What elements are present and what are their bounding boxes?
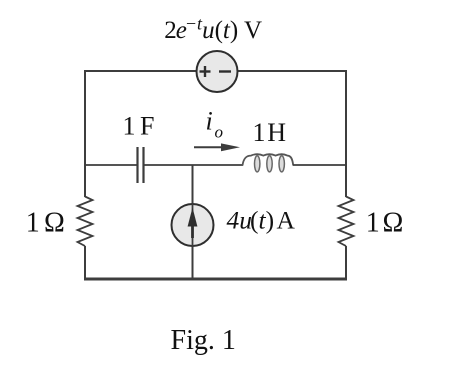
wire: right rail lower segment	[345, 246, 347, 280]
svg-text:1Ω: 1Ω	[26, 208, 65, 239]
svg-text:i: i	[206, 107, 213, 136]
wire: bottom rail	[84, 278, 347, 281]
svg-text:4u(t) A: 4u(t) A	[227, 205, 296, 234]
wire: middle rail left segment	[85, 164, 137, 166]
wire: center branch	[192, 165, 194, 280]
resistor R1 1 Ohm (left)	[78, 197, 93, 247]
svg-text:Fig. 1: Fig. 1	[171, 325, 236, 356]
current source I1	[172, 204, 214, 247]
inductor L1 1 H	[243, 154, 294, 172]
resistor R2 1 Ohm (right)	[339, 197, 354, 247]
svg-text:o: o	[215, 123, 224, 142]
wire: middle rail right segment	[293, 164, 346, 166]
wire: top rail	[85, 70, 346, 72]
wire: left rail lower segment	[84, 246, 86, 280]
svg-text:1H: 1H	[253, 118, 287, 147]
svg-text:1Ω: 1Ω	[366, 208, 404, 239]
wire: left rail upper segment	[84, 70, 86, 197]
current arrow i_o	[194, 143, 240, 151]
wire: right rail upper segment	[345, 70, 347, 197]
capacitor C1 1 F	[138, 147, 144, 183]
svg-text:2e−tu(t) V: 2e−tu(t) V	[164, 14, 262, 45]
svg-text:1F: 1F	[123, 112, 155, 141]
voltage source V1	[197, 51, 238, 92]
wire: middle rail center segment	[144, 164, 243, 166]
